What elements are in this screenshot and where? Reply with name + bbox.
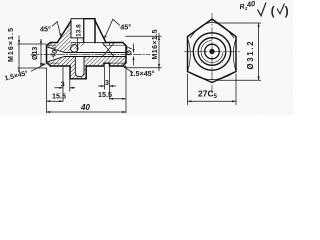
- 1.5x45 right leader arrow: [123, 66, 127, 68]
- U channel outline: [75, 57, 84, 77]
- center dot: [209, 49, 214, 54]
- dia31.2 arrows: [258, 23, 260, 27]
- overall 40 dimension line: [47, 111, 127, 113]
- 27C5 extension + dimension lines: [188, 74, 237, 106]
- groove 3 arrows right: [101, 85, 105, 87]
- top edge right: [106, 42, 123, 44]
- M16 left arrows: [18, 40, 20, 44]
- bore circle: [205, 44, 220, 59]
- hex crown rectangle: [84, 19, 95, 43]
- hatch under groove: [104, 57, 110, 64]
- check mark symbol: [258, 3, 267, 16]
- groove edge lines top right: [104, 43, 110, 46]
- 45 left leader arrow: [59, 33, 61, 37]
- dia7 arrows: [132, 49, 134, 53]
- 40 arrows: [47, 111, 51, 113]
- M16 right arrows: [158, 36, 160, 40]
- thread runout cross: [103, 43, 115, 57]
- left face and chamfers: [47, 43, 51, 67]
- internal cone 40 deg: [47, 47, 65, 62]
- dia13 dimension line: [40, 39, 42, 67]
- hatch right end wall: [110, 57, 127, 66]
- horizontal centerline: [184, 51, 240, 53]
- leader 1.5x45 right: [123, 66, 133, 72]
- hex left chamfer slant: [58, 21, 72, 43]
- right face and chamfers: [123, 43, 126, 67]
- paper background: [0, 0, 293, 115]
- small circle mark under box: [71, 45, 79, 53]
- bore lines: [65, 53, 126, 57]
- top edge under crown: [71, 42, 106, 44]
- leader 45deg left: [52, 22, 61, 37]
- top edge left: [51, 42, 58, 44]
- hex foot block: [70, 66, 86, 79]
- chamfer arcs top and bottom: [190, 23, 234, 80]
- arrowheads left view: [18, 33, 160, 113]
- hatch: lower-left wall: [47, 57, 70, 66]
- chamfer circle: [193, 33, 230, 70]
- vertical centerline: [211, 13, 213, 93]
- boxed dim leader arrow: [76, 48, 78, 52]
- 45 right leader arrow: [104, 35, 106, 38]
- leader 45deg right: [104, 19, 120, 38]
- text labels left view: [4, 23, 159, 113]
- hexagon outline: [188, 19, 237, 83]
- leader 1.5x45 left: [31, 64, 46, 71]
- bottom edge left: [51, 65, 71, 67]
- 15.5 arrows: [47, 100, 51, 102]
- dia7 dimension line right: [133, 44, 135, 66]
- hex right chamfer slant: [95, 20, 106, 42]
- groove 3 arrows left: [59, 87, 63, 89]
- 15.5 dimension lines: [47, 99, 127, 101]
- chamfer arcs sides: [188, 40, 236, 71]
- hatch: upper-left cone wall and hex slant pocket: [47, 21, 84, 53]
- centerline axis: [31, 53, 150, 55]
- parenthesized check mark: [271, 6, 275, 18]
- M16x1.5 right extension + dimension line: [124, 33, 162, 71]
- M16x1.5 left extension + dimension line: [18, 36, 47, 72]
- groove width 3 dim lines right: [98, 85, 116, 87]
- dia13 arrows: [40, 39, 42, 43]
- paper grain: [0, 0, 1, 1]
- leader from boxed dim into bore: [76, 38, 78, 51]
- thread major circle: [198, 38, 226, 66]
- dia31.2 extension + dimension lines: [217, 23, 261, 80]
- bottom extension lines: [47, 67, 127, 113]
- white U channel in foot: [75, 56, 84, 77]
- hatch: lower-right wall: [86, 57, 104, 66]
- thread minor circle: [201, 41, 223, 63]
- 27C5 arrows: [188, 100, 192, 102]
- 1.5x45 left leader arrow: [42, 63, 46, 65]
- hatch: hex foot block: [70, 57, 86, 79]
- groove width 3 dim lines left: [55, 87, 76, 89]
- thread minor lines: [47, 45, 126, 63]
- boxed reference dimension frame: [71, 19, 84, 38]
- bottom edge right: [86, 63, 123, 66]
